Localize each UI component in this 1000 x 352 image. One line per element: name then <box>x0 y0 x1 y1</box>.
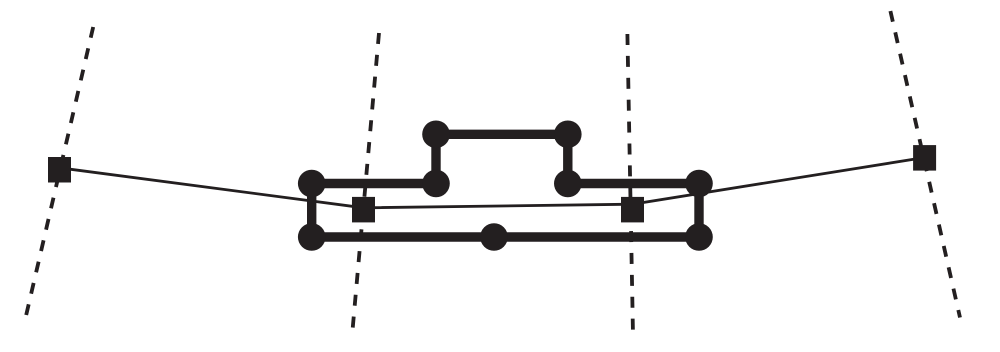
dashed line 4 (right) <box>890 11 960 318</box>
node B (mid inner-left circle) <box>422 170 450 198</box>
dashed line 2 <box>352 33 379 336</box>
node D (top-right circle) <box>554 121 582 149</box>
node E (mid inner-right circle) <box>554 170 582 198</box>
thick polygon outline <box>312 134 699 237</box>
node A (mid far-left circle) <box>298 170 326 198</box>
node C (top-left circle) <box>422 121 450 149</box>
square S4 (right) <box>913 145 936 171</box>
node I (bottom-right circle) <box>685 223 713 251</box>
node H (bottom-middle circle) <box>480 223 508 251</box>
square S1 (left) <box>48 157 71 183</box>
node F (mid far-right circle) <box>685 170 713 198</box>
dashed line 1 (left) <box>26 27 93 315</box>
node G (bottom-left circle) <box>298 223 326 251</box>
dashed line 3 <box>627 34 633 335</box>
square S2 (mid-left) <box>352 197 375 223</box>
square S3 (mid-right) <box>621 197 644 223</box>
thin polyline through squares <box>60 158 925 208</box>
